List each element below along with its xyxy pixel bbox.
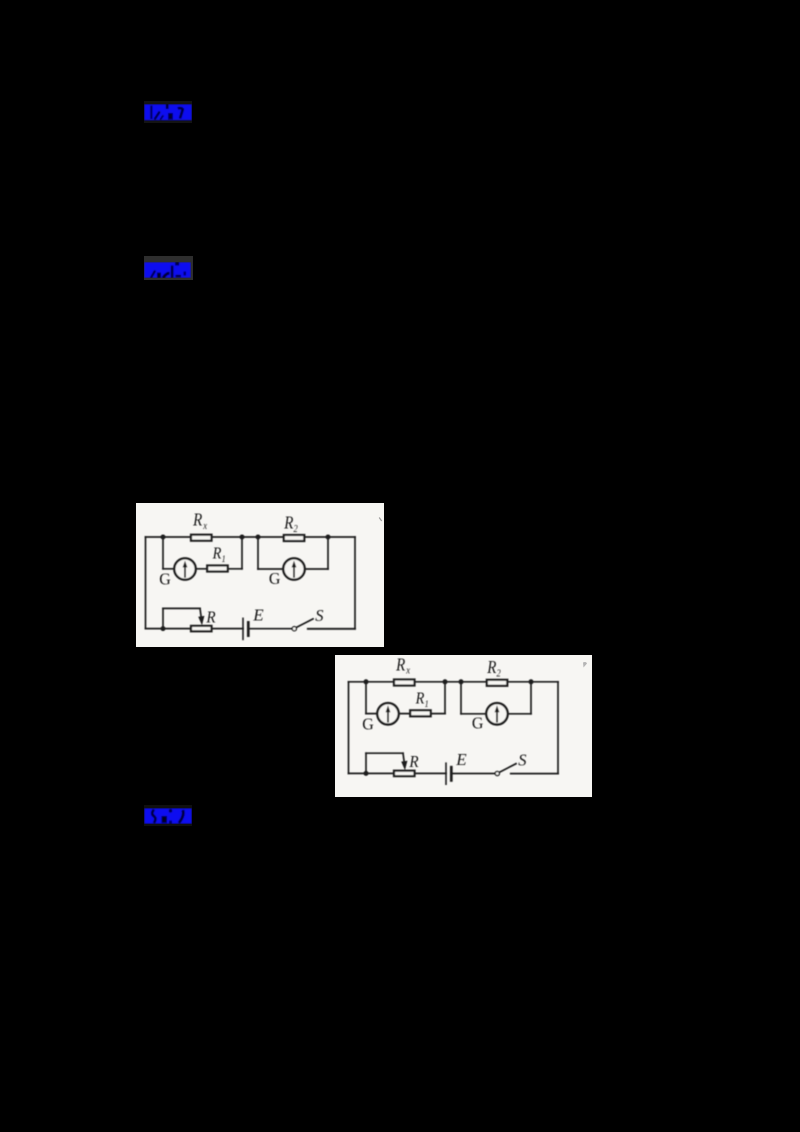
svg-text:S: S [518,751,526,770]
label E fig2 [455,750,467,769]
label G (left galvanometer) fig1 [159,569,171,588]
svg-text:G: G [472,713,484,732]
wire: right branch through galvanometer fig2 [461,713,531,715]
switch S: open blade fig1 [297,619,314,628]
wire: rheostat slider tap vertical fig1 [162,608,164,628]
label G (right galvanometer) fig2 [472,713,484,732]
wire: left branch down from node A fig2 [365,682,367,714]
rheostat R (slide resistor) fig1 [191,626,212,631]
wire: bottom rail left segment fig1 [146,628,244,630]
switch S: pivot contact fig1 [292,627,296,631]
node D junction dot fig2 [529,679,534,684]
faint scan box behind 【点评】 [144,805,192,826]
svg-text:G: G [362,714,374,733]
blue label 【分析】 [144,104,192,121]
resistor Rx fig1 [191,535,212,541]
wire: rheostat slider tap vertical fig2 [365,753,367,773]
label S fig1 [315,606,323,625]
svg-text:S: S [315,606,323,625]
label G (left galvanometer) fig2 [362,714,374,733]
scan speck fig2 [583,662,587,668]
svg-text:G: G [159,569,171,588]
wire: left vertical of outer loop fig2 [348,682,350,774]
label R1 fig1 [212,545,226,565]
galvanometer G (left) fig2 [377,703,398,724]
wire: bottom rail battery-to-switch segment fig2 [451,773,495,775]
node C junction dot fig1 [256,535,261,540]
wire: right vertical of outer loop fig2 [557,682,559,774]
wire: right branch down from node C fig1 [257,537,259,569]
figure panel 2 (white scan background) [335,655,592,797]
label R2 fig2 [486,658,501,680]
resistor R1 fig2 [410,710,431,716]
wire: right branch down from node C fig2 [460,682,462,714]
wire: left branch into galvanometer fig2 [366,713,388,715]
node B junction dot fig2 [443,679,448,684]
wire: left vertical of outer loop fig1 [145,537,147,629]
label S fig2 [518,751,526,770]
svg-text:E: E [455,750,467,769]
svg-text:R: R [408,753,418,771]
wire: right vertical of outer loop fig1 [354,537,356,629]
label R1 fig2 [415,689,429,709]
wire: rheostat slider tap horizontal fig1 [163,607,200,609]
wire: right branch through galvanometer fig1 [258,568,328,570]
faint scan box behind 【分析】 [144,101,192,123]
blue label 【点评】 [144,808,192,824]
galvanometer G (right) fig2 [486,703,507,724]
label R of rheostat fig1 [205,609,215,627]
node D junction dot fig1 [326,535,331,540]
svg-text:E: E [252,605,264,624]
node B junction dot fig1 [240,535,245,540]
battery E: short plate fig1 [247,622,250,635]
wire: rheostat slider tap horizontal fig2 [366,752,403,754]
scan speck fig1 [379,518,382,522]
circuit figure 2 [335,655,592,797]
node C junction dot fig2 [459,679,464,684]
galvanometer G (right) fig1 [283,558,304,579]
label G (right galvanometer) fig1 [269,568,281,587]
label Rx fig2 [395,655,411,677]
node E junction dot (rheostat tap) fig2 [364,771,369,776]
wire: top rail fig1 [146,536,356,538]
label R of rheostat fig2 [408,753,418,771]
switch S: open blade fig2 [500,764,517,773]
svg-text:Rx: Rx [395,655,411,677]
slider arrow of rheostat R fig1 [198,608,204,625]
wire: left branch riser up to node B fig1 [241,537,243,569]
galvanometer G (left) fig1 [174,558,195,579]
resistor Rx fig2 [394,680,415,686]
svg-text:R2: R2 [486,658,501,680]
switch S: pivot contact fig2 [495,771,499,775]
wire: right branch riser up to node D fig1 [327,537,329,569]
svg-text:R: R [205,609,215,627]
wire: top rail fig2 [349,681,559,683]
wire: bottom rail switch-to-right segment fig1 [308,628,355,630]
rheostat R (slide resistor) fig2 [394,771,415,776]
label E fig1 [252,605,264,624]
node E junction dot (rheostat tap) fig1 [161,626,166,631]
slider arrow of rheostat R fig2 [401,753,407,770]
label Rx fig1 [192,511,208,533]
resistor R1 fig1 [207,566,228,572]
wire: right branch riser up to node D fig2 [530,682,532,714]
wire: left branch into galvanometer fig1 [163,568,185,570]
blue label 【解答】 [144,262,191,278]
svg-text:G: G [269,568,281,587]
circuit figure 1 [136,503,384,647]
resistor R2 fig2 [487,680,508,686]
node A junction dot fig1 [161,535,166,540]
svg-text:R1: R1 [415,689,429,709]
resistor R2 fig1 [284,535,305,541]
wire: bottom rail battery-to-switch segment fig1 [248,628,292,630]
figure panel 1 (white scan background) [136,503,384,647]
label R2 fig1 [283,513,298,535]
svg-text:R2: R2 [283,513,298,535]
battery E: short plate fig2 [450,767,453,780]
wire: left branch riser up to node B fig2 [444,682,446,714]
wire: galvanometer to R1 to riser fig1 [185,568,242,570]
battery E: long plate fig1 [242,618,244,639]
faint scan box behind 【解答】 [144,256,193,280]
svg-text:Rx: Rx [192,511,208,533]
wire: bottom rail switch-to-right segment fig2 [511,773,558,775]
wire: galvanometer to R1 to riser fig2 [388,713,445,715]
svg-text:R1: R1 [212,545,226,565]
node A junction dot fig2 [364,679,369,684]
battery E: long plate fig2 [445,763,447,784]
wire: bottom rail left segment fig2 [349,772,447,774]
wire: left branch down from node A fig1 [162,537,164,569]
